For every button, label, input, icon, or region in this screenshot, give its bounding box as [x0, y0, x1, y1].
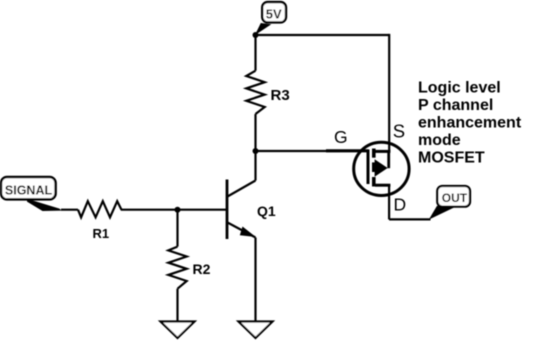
- node A (5V junction): [253, 32, 259, 38]
- OUT callout box: [437, 186, 470, 207]
- 5V callout tail: [255, 23, 271, 35]
- Q1 emitter diagonal: [228, 223, 256, 238]
- wire drain vertical: [388, 185, 390, 219]
- resistor R3: [246, 71, 264, 114]
- MOSFET source lead: [375, 150, 390, 153]
- SIGNAL callout box: [1, 177, 56, 199]
- MOSFET channel segment middle: [372, 162, 376, 172]
- annotation text block: [418, 80, 522, 167]
- MOSFET U1 (P-channel enhancement): [354, 142, 409, 195]
- OUT callout tail: [429, 206, 454, 220]
- ground (under Q1 emitter): [239, 322, 273, 339]
- MOSFET channel segment bottom: [372, 177, 376, 187]
- svg-text:S: S: [393, 121, 405, 142]
- node C (base / R2 junction): [175, 207, 181, 213]
- wire source vertical drop: [388, 34, 390, 151]
- transistor Q1: [227, 180, 256, 240]
- wire gate node to MOSFET gate: [256, 150, 341, 152]
- svg-text:SIGNAL: SIGNAL: [5, 183, 53, 197]
- node B (gate / collector junction): [253, 148, 259, 154]
- svg-text:Logic level: Logic level: [418, 80, 501, 97]
- MOSFET body circle: [354, 142, 409, 195]
- Q1 collector diagonal: [228, 181, 256, 197]
- svg-text:OUT: OUT: [442, 191, 468, 205]
- wire node C down to R2: [176, 210, 178, 247]
- MOSFET gate bar: [367, 150, 370, 185]
- svg-text:enhancement: enhancement: [418, 115, 522, 132]
- MOSFET channel segment top: [372, 149, 376, 158]
- svg-text:G: G: [334, 127, 348, 147]
- MOSFET body-source connector: [387, 151, 390, 168]
- wire R3 bottom to gate node: [254, 114, 256, 151]
- Q1 base bar: [226, 180, 229, 240]
- ground (under R2): [161, 322, 195, 339]
- svg-text:5V: 5V: [266, 6, 282, 21]
- wire R2 bottom to ground: [176, 289, 178, 321]
- 5V callout box: [262, 2, 286, 22]
- Q1 emitter arrow: [240, 227, 256, 238]
- wire base line from R1 to Q1 base: [61, 209, 227, 211]
- MOSFET body arrow (points right = P-channel): [375, 159, 388, 177]
- svg-text:P channel: P channel: [418, 97, 493, 114]
- svg-text:D: D: [394, 195, 407, 215]
- wire top rail from 5V node to MOSFET source column: [256, 34, 390, 36]
- MOSFET drain lead: [375, 184, 390, 187]
- wire 5V node down to R3: [254, 35, 256, 71]
- wire gate lead (thick): [326, 149, 369, 152]
- svg-text:R3: R3: [271, 87, 290, 104]
- wire gate node down to Q1 collector: [254, 151, 256, 181]
- svg-text:Q1: Q1: [257, 203, 276, 219]
- resistor R2: [168, 247, 186, 289]
- svg-text:MOSFET: MOSFET: [418, 150, 485, 167]
- svg-text:mode: mode: [418, 132, 461, 149]
- svg-text:R1: R1: [93, 226, 110, 241]
- SIGNAL callout tail: [27, 199, 62, 211]
- resistor R1: [78, 201, 122, 217]
- svg-text:R2: R2: [193, 261, 211, 277]
- wire drain to OUT: [389, 218, 430, 220]
- wire Q1 emitter down to ground: [254, 238, 256, 322]
